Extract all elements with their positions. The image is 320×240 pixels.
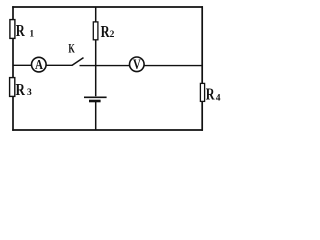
svg-text:4: 4 [216,94,221,104]
voltmeter V1 circle [130,57,145,72]
svg-text:1: 1 [29,30,34,40]
wire: middle vertical upper (through R2 to battery) [95,7,97,96]
svg-text:K: K [68,41,75,56]
wire: middle vertical lower (battery to bottom) [95,101,97,130]
resistor R1 [10,20,15,39]
svg-text:2: 2 [110,30,115,40]
svg-text:R: R [206,85,215,104]
wire: middle horizontal left segment (to switch pivot) [13,64,73,66]
resistor R2 [93,22,98,40]
wire: top border [12,6,203,8]
wire: left branch [12,6,14,131]
resistor R4 [200,83,204,101]
wire: right branch [201,6,203,131]
wire: middle horizontal right segment (switch to right border) [80,65,203,67]
battery BT1 short plate [89,100,101,103]
svg-text:3: 3 [27,88,32,98]
svg-text:R: R [16,21,26,40]
wire: bottom border [12,129,203,131]
ammeter A1 circle [32,57,47,72]
switch K blade [72,58,84,66]
battery BT1 long plate [84,96,107,98]
svg-text:V: V [133,57,141,73]
svg-text:R: R [16,80,26,99]
resistor R3 [10,78,15,97]
svg-text:A: A [35,58,44,73]
